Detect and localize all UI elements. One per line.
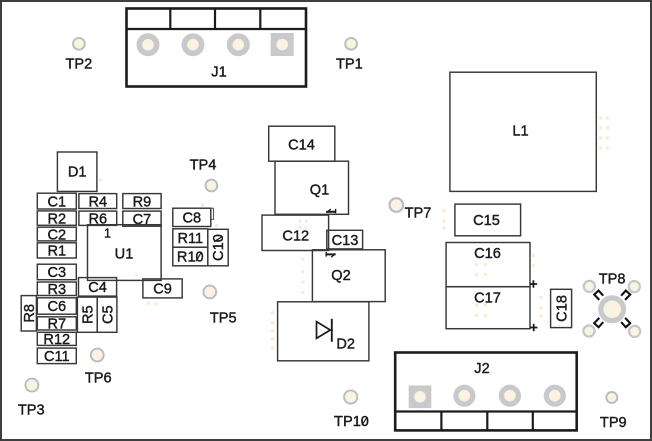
testpoint TP4 [190, 157, 218, 191]
resistor R1 [37, 243, 76, 260]
diode D2 [278, 302, 369, 361]
svg-text:L1: L1 [512, 124, 528, 140]
C10 slashed zero [214, 236, 223, 241]
C8 pad notch [211, 208, 214, 219]
svg-text:R3: R3 [47, 282, 66, 298]
testpoint TP7 [390, 198, 432, 221]
svg-text:TP3: TP3 [18, 402, 45, 418]
transistor Q2 [312, 250, 385, 302]
svg-text:1: 1 [104, 226, 111, 240]
svg-text:C14: C14 [288, 138, 315, 154]
svg-text:R2: R2 [47, 211, 66, 227]
capacitor C8 [173, 208, 211, 226]
capacitor C2 [37, 227, 76, 243]
svg-text:R10: R10 [177, 250, 204, 266]
svg-text:Q2: Q2 [331, 268, 350, 284]
svg-text:U1: U1 [115, 247, 134, 263]
svg-text:TP8: TP8 [599, 271, 626, 287]
capacitor C1 [37, 193, 76, 210]
resistor R2 [37, 211, 76, 227]
svg-text:D1: D1 [68, 165, 87, 181]
resistor R3 [37, 282, 76, 298]
svg-text:C9: C9 [153, 282, 172, 298]
capacitor C11 [37, 348, 76, 365]
svg-text:R11: R11 [177, 231, 203, 247]
Q2 pin 1 marker (rotated 1) [326, 252, 336, 257]
capacitor C13 [327, 230, 363, 249]
resistor R11 [173, 229, 208, 247]
resistor R8 [21, 296, 38, 331]
testpoint TP10 [334, 390, 369, 430]
svg-text:C18: C18 [554, 295, 570, 322]
resistor R7 [37, 317, 76, 333]
svg-text:TP2: TP2 [66, 57, 93, 73]
svg-text:C8: C8 [182, 211, 201, 227]
capacitor C3 [37, 264, 76, 281]
connector J1 [127, 9, 307, 87]
capacitor C17 [446, 287, 530, 329]
capacitor C6 [37, 298, 76, 315]
svg-text:R4: R4 [88, 194, 107, 210]
svg-text:C12: C12 [282, 229, 309, 245]
Q1 pin 1 marker (rotated 1) [326, 209, 336, 213]
svg-text:C16: C16 [474, 246, 501, 262]
C16 polarity plus [530, 280, 537, 287]
capacitor C4 [79, 278, 117, 297]
connector J2 [395, 353, 577, 431]
testpoint TP2 [66, 38, 93, 73]
testpoint TP9 [600, 392, 627, 431]
svg-text:C1: C1 [47, 194, 66, 210]
testpoint TP8 (4-pad) [583, 271, 640, 337]
svg-text:J2: J2 [474, 361, 489, 377]
ic U1 [88, 225, 162, 281]
svg-text:C3: C3 [47, 265, 66, 281]
svg-text:R9: R9 [133, 194, 152, 210]
svg-text:C2: C2 [47, 227, 66, 243]
resistor R6 [79, 211, 117, 227]
capacitor C9 [143, 279, 182, 298]
testpoint TP6 [85, 349, 112, 387]
C17 polarity plus [530, 324, 537, 331]
svg-text:C13: C13 [332, 233, 359, 249]
svg-text:C7: C7 [133, 212, 152, 228]
svg-text:C17: C17 [474, 291, 501, 307]
testpoint TP3 [18, 379, 45, 419]
svg-text:TP4: TP4 [190, 157, 217, 173]
svg-text:TP5: TP5 [210, 311, 237, 327]
resistor R5 [77, 297, 97, 332]
capacitor C12 [262, 215, 329, 250]
svg-text:TP9: TP9 [600, 415, 627, 431]
svg-text:R8: R8 [22, 304, 38, 323]
svg-text:J1: J1 [211, 65, 226, 81]
capacitor C18 [551, 289, 572, 327]
TP10 slashed zero [362, 417, 367, 425]
svg-text:C4: C4 [88, 280, 107, 296]
transistor Q1 [275, 161, 349, 214]
svg-text:C6: C6 [47, 299, 66, 315]
capacitor C16 [446, 243, 530, 287]
svg-text:C5: C5 [100, 305, 116, 324]
capacitor C14 [269, 126, 335, 161]
svg-text:R7: R7 [47, 317, 66, 333]
testpoint TP1 [336, 38, 363, 73]
capacitor C5 [97, 297, 117, 332]
svg-text:C11: C11 [44, 349, 70, 365]
diode D1 [57, 152, 97, 191]
svg-text:TP7: TP7 [405, 206, 432, 222]
R10 slashed zero [196, 252, 201, 261]
resistor R12 [37, 332, 76, 348]
svg-text:R5: R5 [81, 305, 97, 324]
svg-text:C15: C15 [473, 213, 500, 229]
svg-text:R1: R1 [47, 244, 66, 260]
capacitor C7 [123, 211, 161, 228]
svg-text:TP1: TP1 [336, 57, 363, 73]
resistor R9 [123, 194, 161, 211]
svg-text:Q1: Q1 [310, 183, 329, 199]
resistor R10 [173, 247, 208, 266]
inductor L1 [450, 72, 596, 191]
capacitor C15 [455, 204, 521, 236]
capacitor C10 [208, 229, 228, 265]
svg-text:TP6: TP6 [85, 371, 112, 387]
svg-text:D2: D2 [336, 337, 355, 353]
testpoint TP5 [203, 286, 236, 327]
svg-text:R12: R12 [43, 332, 70, 348]
via dots (thermal/stitching vias) [99, 116, 609, 349]
resistor R4 [79, 194, 117, 211]
